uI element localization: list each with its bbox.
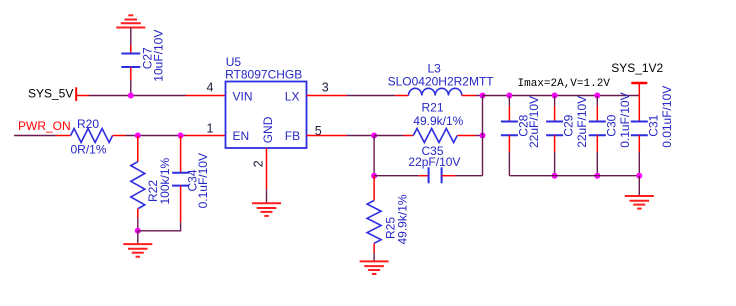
resistor R25: [367, 201, 381, 244]
svg-text:SYS_5V: SYS_5V: [28, 86, 73, 100]
svg-text:10uF/10V: 10uF/10V: [152, 30, 166, 82]
pin stub U5 VIN pin 4: [186, 95, 226, 97]
wire C28 bottom to rail: [508, 152, 510, 176]
ground (output, below C31): [625, 196, 654, 209]
pin stub L3 left: [395, 95, 408, 97]
svg-text:PWR_ON: PWR_ON: [18, 119, 71, 133]
pin stub C34 top: [180, 136, 182, 173]
node junction C30 bottom: [594, 173, 600, 179]
wire C28 top stub: [508, 96, 510, 107]
wire C34 bottom to R22 ground node: [138, 222, 181, 231]
wire FB junction to R21: [374, 135, 403, 137]
resistor R21: [413, 129, 457, 143]
wire L3 to output junction: [476, 95, 483, 97]
wire output rail: [483, 95, 640, 97]
pin stub L3 right: [462, 95, 476, 97]
svg-text:SLO0420H2R2MTT: SLO0420H2R2MTT: [388, 75, 495, 89]
pin stub C29 bottom: [554, 135, 556, 152]
pin stub C28 bottom: [508, 135, 510, 152]
svg-text:R21: R21: [422, 101, 444, 115]
wire C27 bottom to SYS_5V rail: [130, 80, 132, 96]
svg-text:22pF/10V: 22pF/10V: [408, 155, 460, 169]
node junction L3 output: [480, 93, 486, 99]
capacitor C29: [546, 122, 563, 136]
node junction R22/C34 ground: [135, 228, 141, 234]
svg-text:0.1uF/10V: 0.1uF/10V: [196, 153, 210, 208]
resistor R22: [131, 162, 145, 209]
power symbol SYS_5V rail top (above C27): [116, 15, 145, 27]
svg-text:L3: L3: [428, 62, 442, 76]
svg-text:C29: C29: [562, 114, 576, 136]
svg-text:22uF/10V: 22uF/10V: [527, 96, 541, 148]
wire vertical L3 junction down to R21 junction: [482, 96, 484, 136]
pin stub U5 FB pin 5: [307, 135, 347, 137]
node junction C27/SYS_5V: [128, 93, 134, 99]
node junction C34/EN: [178, 133, 184, 139]
pin stub R22 bottom: [137, 209, 139, 218]
resistor R20: [71, 129, 113, 143]
wire vertical R21 junction down to C35 branch: [482, 136, 484, 176]
pin stub U5 EN pin 1: [186, 135, 226, 137]
svg-text:LX: LX: [285, 90, 300, 104]
pin stub R20 left: [56, 135, 71, 137]
ground (below R25): [360, 261, 389, 274]
svg-text:100k/1%: 100k/1%: [158, 157, 172, 204]
svg-text:SYS_1V2: SYS_1V2: [611, 61, 663, 75]
svg-text:C31: C31: [646, 114, 660, 136]
capacitor C28: [501, 122, 518, 136]
wire SYS_1V2 down to rail: [638, 83, 640, 96]
capacitor C30: [589, 122, 606, 136]
wire C30 top stub: [596, 96, 598, 107]
capacitor C31: [631, 122, 648, 136]
svg-text:VIN: VIN: [233, 90, 253, 104]
ground (below U5): [252, 203, 281, 216]
wire SYS_5V rail to U5 VIN: [89, 95, 186, 97]
wire bottom rail to ground: [638, 176, 640, 196]
wire PWR_ON lead-in: [14, 135, 56, 137]
pin stub U5 GND pin 2: [266, 148, 268, 189]
svg-text:1: 1: [207, 121, 214, 135]
node junction R21 right: [480, 133, 486, 139]
pin stub R25 bottom: [373, 243, 375, 253]
wire power symbol to C27 top: [130, 28, 132, 46]
svg-text:RT8097CHGB: RT8097CHGB: [225, 68, 302, 82]
ground (below R22): [123, 244, 152, 257]
capacitor C27: [121, 54, 140, 68]
svg-text:0R/1%: 0R/1%: [71, 143, 107, 157]
node junction C30 top: [594, 93, 600, 99]
pin stub C35 right: [442, 175, 456, 177]
wire C35 left branch: [374, 175, 419, 177]
pin stub C31 bottom: [638, 135, 640, 152]
pin stub C35 left: [419, 175, 429, 177]
svg-text:4: 4: [207, 80, 214, 94]
pin stub U5 LX pin 3: [307, 95, 347, 97]
IC U5 RT8097CHGB body: [226, 82, 307, 149]
pin stub C29 top: [554, 106, 556, 122]
inductor L3: [409, 88, 462, 95]
wire R21 to right vertical: [475, 135, 482, 137]
pin stub R21 right: [457, 135, 475, 137]
wire SYS_5V red segment: [76, 95, 89, 97]
svg-text:Imax=2A,V=1.2V: Imax=2A,V=1.2V: [518, 78, 611, 90]
pin stub R21 left: [404, 135, 414, 137]
wire C31 bottom to rail: [638, 152, 640, 176]
pin stub C30 bottom: [596, 135, 598, 152]
node junction C29 bottom: [552, 173, 558, 179]
net stub tick SYS_5V: [75, 87, 77, 101]
svg-text:EN: EN: [233, 129, 250, 143]
pin stub C28 top: [508, 106, 510, 122]
svg-text:49.9k/1%: 49.9k/1%: [396, 194, 410, 244]
svg-text:49.9k/1%: 49.9k/1%: [413, 114, 463, 128]
wire LX to L3: [347, 95, 396, 97]
wire R20 to EN pin: [126, 135, 186, 137]
pin stub C27 bottom (red): [130, 67, 132, 80]
wire C29 top stub: [554, 96, 556, 107]
wire R22 bottom to ground node: [137, 218, 139, 231]
wire C35 right to vertical: [455, 175, 482, 177]
wire C29 bottom to rail: [554, 152, 556, 176]
pin stub R22 top: [137, 136, 139, 162]
node junction C28 top: [506, 93, 512, 99]
svg-text:0.01uF/10V: 0.01uF/10V: [660, 86, 674, 148]
pin stub C30 top: [596, 106, 598, 122]
node junction bottom rail / ground: [636, 173, 642, 179]
svg-text:FB: FB: [285, 129, 300, 143]
svg-text:2: 2: [251, 160, 265, 167]
capacitor C35: [429, 167, 442, 183]
svg-text:C30: C30: [604, 114, 618, 136]
svg-text:22uF/10V: 22uF/10V: [575, 96, 589, 148]
power bar SYS_1V2: [631, 82, 647, 85]
svg-text:GND: GND: [261, 116, 275, 143]
capacitor C34: [172, 173, 189, 186]
wire FB to junction: [347, 135, 375, 137]
node junction FB: [371, 133, 377, 139]
svg-text:3: 3: [322, 80, 329, 94]
pin stub R25 top: [373, 176, 375, 201]
pin stub C31 top: [638, 96, 640, 122]
node junction C35/R25: [371, 173, 377, 179]
node junction R22/EN: [135, 133, 141, 139]
wire ground node down: [137, 231, 139, 244]
wire R25 to ground: [373, 253, 375, 261]
wire C30 bottom to rail: [596, 152, 598, 176]
pin stub R20 right: [113, 135, 126, 137]
pin stub C27 top (red): [130, 45, 132, 54]
wire FB junction down to C35/R25 node: [373, 136, 375, 176]
wire output bottom rail: [509, 175, 639, 177]
node junction C29 top: [552, 93, 558, 99]
svg-text:0.1uF/10V: 0.1uF/10V: [618, 92, 632, 147]
pin stub C34 bottom: [180, 186, 182, 222]
svg-text:R20: R20: [77, 117, 99, 131]
wire GND pin to ground: [266, 189, 268, 203]
